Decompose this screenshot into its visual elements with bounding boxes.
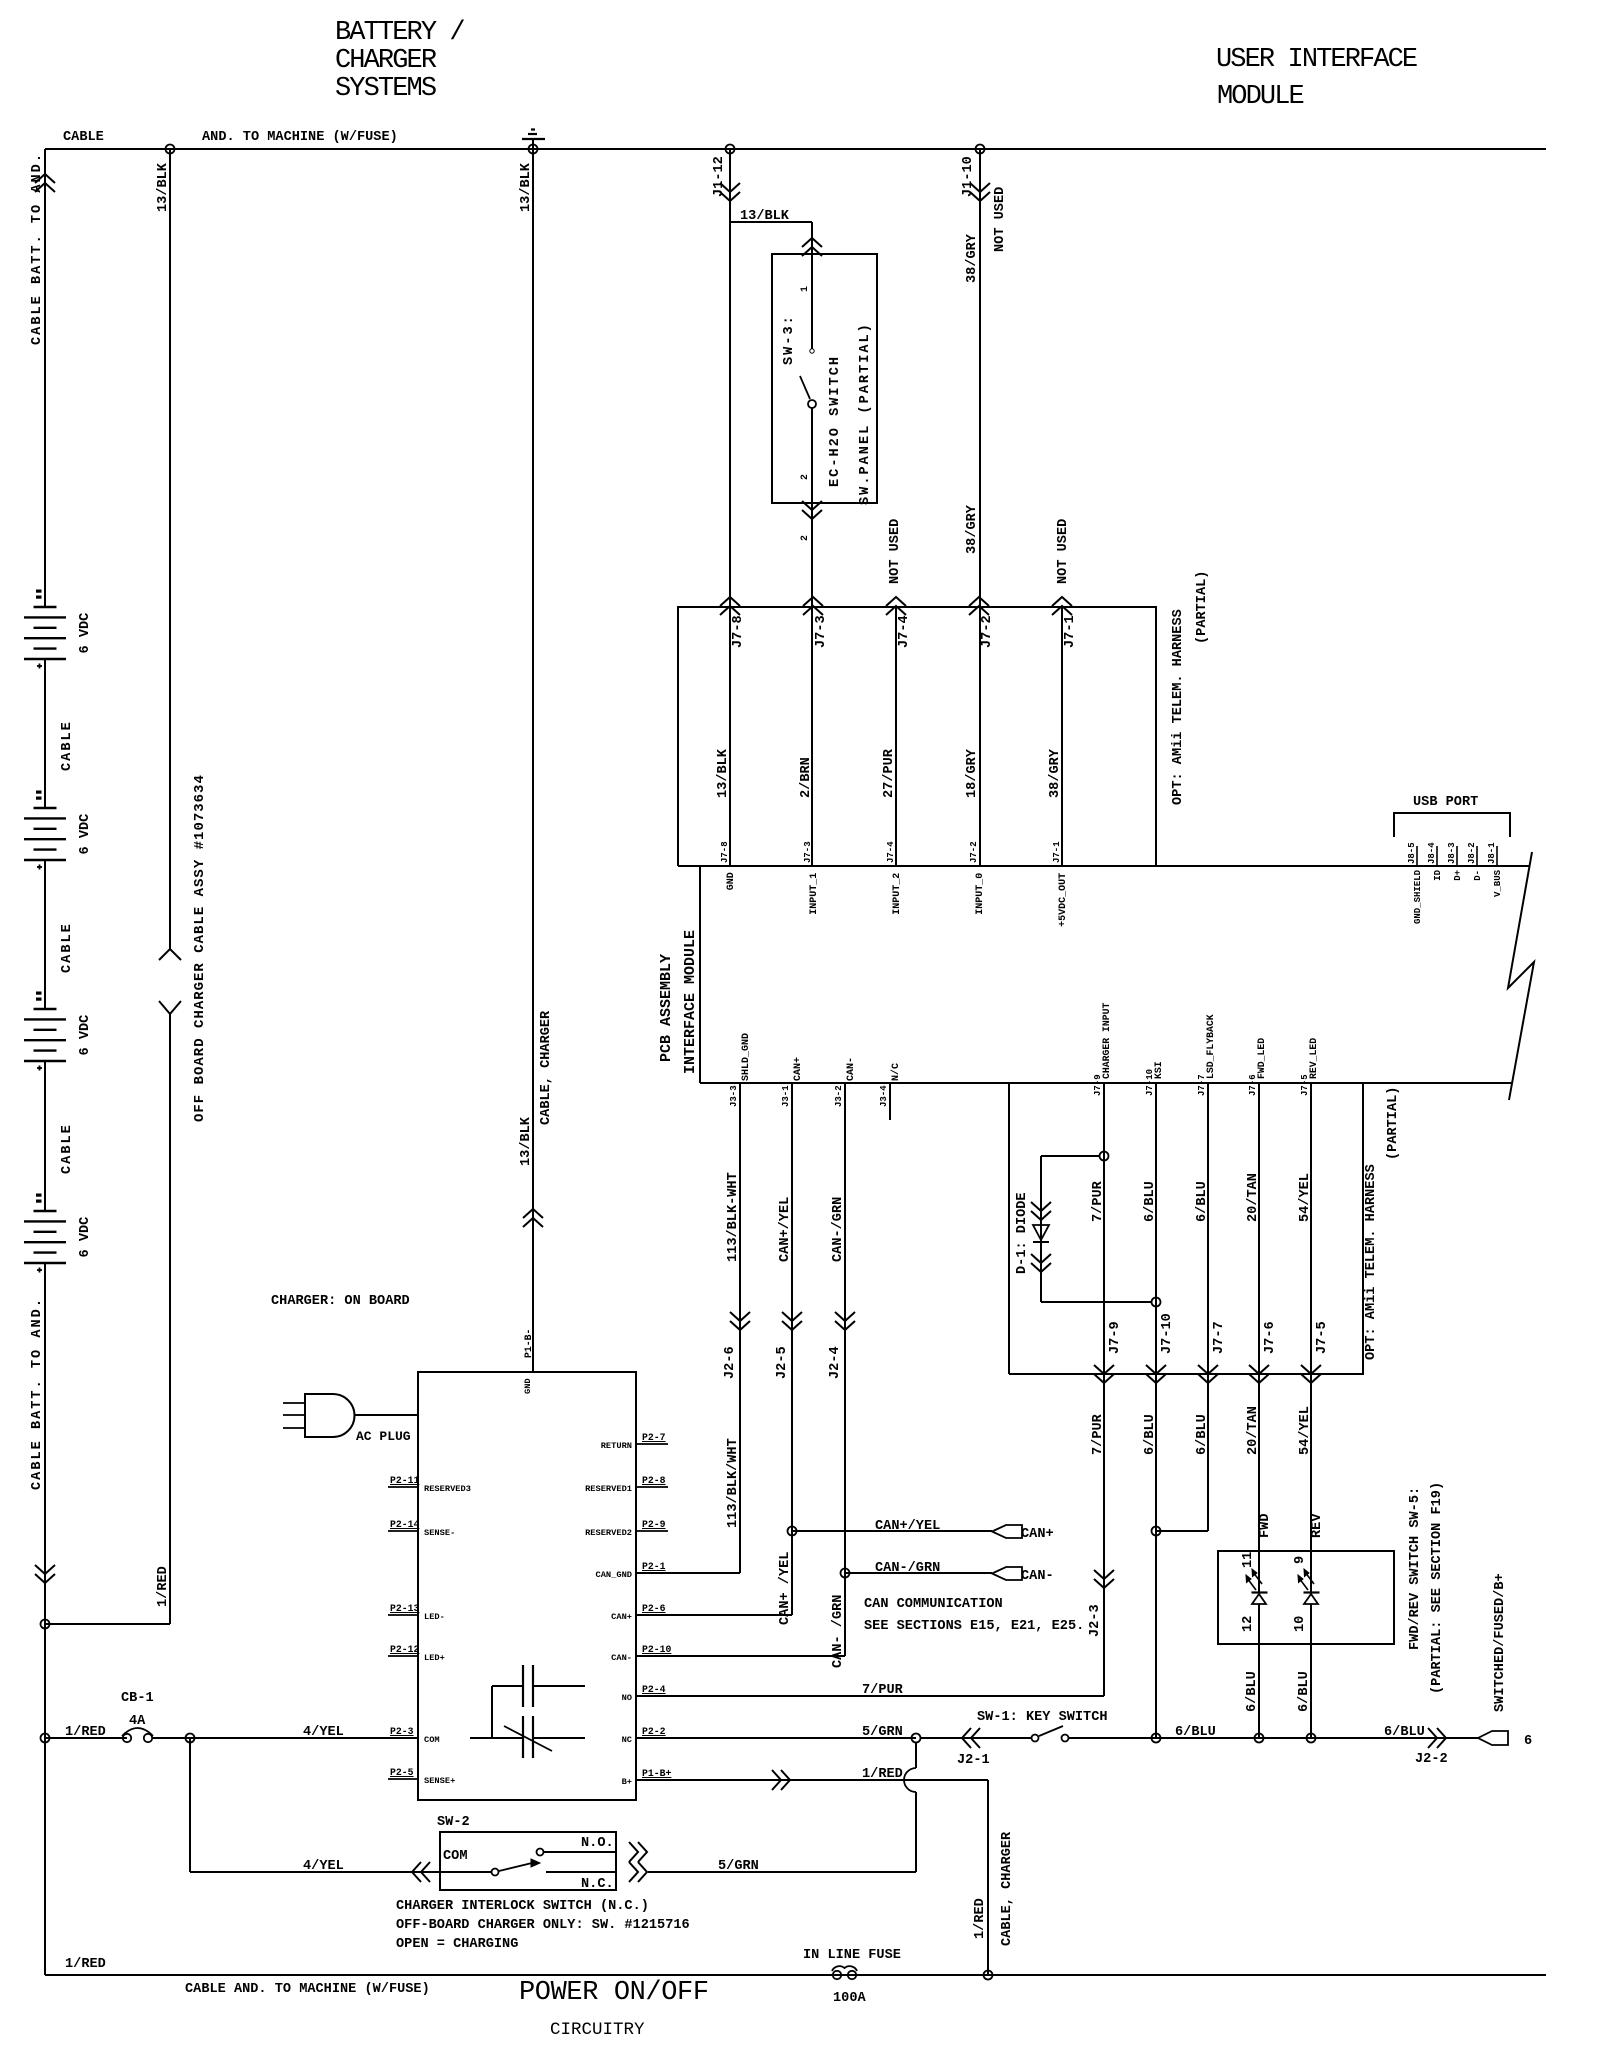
svg-text:NOT USED: NOT USED bbox=[993, 187, 1008, 252]
wire: 6/BLU key switch output to J2-2 flag bbox=[1069, 1737, 1478, 1739]
svg-text:COM: COM bbox=[424, 1735, 440, 1745]
svg-text:18/GRY: 18/GRY bbox=[965, 748, 980, 798]
wire: 113/BLK-WHT from J3-3 down to charger CAN_GND P2-1 bbox=[739, 1083, 741, 1573]
svg-text:D-1: DIODE: D-1: DIODE bbox=[1015, 1192, 1030, 1274]
svg-text:J7-1: J7-1 bbox=[1052, 841, 1062, 863]
connector chevrons at harness top edge J7-4 bbox=[886, 606, 906, 615]
wire: 4/YEL branch down from CB-1 node to SW-2 bbox=[189, 1738, 191, 1872]
svg-text:P2-9: P2-9 bbox=[642, 1519, 666, 1530]
cable-assembly break fork (lower) on x170 riser bbox=[159, 1001, 181, 1014]
wire: 1/RED riser lower segment down to battery positive node bbox=[169, 1014, 171, 1624]
battery B1 6 VDC bbox=[37, 590, 42, 592]
svg-text:LED+: LED+ bbox=[424, 1653, 445, 1663]
svg-text:RESERVED1: RESERVED1 bbox=[585, 1484, 632, 1494]
svg-text:1/RED: 1/RED bbox=[65, 1957, 106, 1972]
svg-text:J1-12: J1-12 bbox=[712, 156, 727, 197]
switch box SW-3 EC-H2O SWITCH SW.PANEL (PARTIAL) bbox=[772, 254, 877, 503]
wire: J1-10 drop from top bus (x=980) 38/GRY bbox=[979, 149, 981, 866]
svg-text:FWD_LED: FWD_LED bbox=[1256, 1038, 1267, 1079]
svg-text:AND. TO MACHINE (W/FUSE): AND. TO MACHINE (W/FUSE) bbox=[202, 130, 398, 145]
svg-text:CABLE: CABLE bbox=[63, 130, 104, 145]
USB pin stub J8-4 bbox=[1436, 846, 1438, 866]
connector marker J2-4 chevrons bbox=[835, 1312, 855, 1321]
svg-text:SYSTEMS: SYSTEMS bbox=[335, 74, 436, 104]
wire: cable between B1 and B2 bbox=[44, 659, 46, 808]
USB pin stub J8-2 bbox=[1476, 846, 1478, 866]
svg-text:RESERVED3: RESERVED3 bbox=[424, 1484, 471, 1494]
wire: top ground bus AND. TO MACHINE (W/FUSE) bbox=[45, 148, 1546, 150]
svg-text:4A: 4A bbox=[129, 1714, 146, 1729]
svg-text:USB PORT: USB PORT bbox=[1413, 795, 1478, 810]
svg-text:1/RED: 1/RED bbox=[65, 1725, 106, 1740]
svg-text:J7-3: J7-3 bbox=[803, 841, 813, 863]
svg-text:CB-1: CB-1 bbox=[121, 1691, 154, 1706]
LED FWD indicator (pins 11/12) bbox=[1252, 1591, 1268, 1593]
wire: P1-B- GND riser from charger top to top bus (13/BLK CABLE, CHARGER) bbox=[532, 149, 534, 1372]
cable marker chevrons out of SW-2 N.C. bbox=[638, 1862, 647, 1882]
svg-text:P2-1: P2-1 bbox=[642, 1561, 666, 1572]
AC plug symbol bbox=[283, 1402, 305, 1404]
svg-text:J8-2: J8-2 bbox=[1467, 842, 1477, 864]
svg-text:38/GRY: 38/GRY bbox=[1048, 748, 1063, 798]
svg-text:J2-6: J2-6 bbox=[723, 1346, 738, 1379]
svg-text:6/BLU: 6/BLU bbox=[1297, 1671, 1312, 1712]
svg-text:B+: B+ bbox=[622, 1777, 632, 1787]
wire: 6/BLU riser J7-7 LSD_FLYBACK bbox=[1207, 1083, 1209, 1531]
svg-text:OPT: AMii TELEM. HARNESS: OPT: AMii TELEM. HARNESS bbox=[1364, 1164, 1379, 1360]
wire: left battery cable below B4 down to bottom bus bbox=[44, 1263, 46, 1975]
svg-text:5/GRN: 5/GRN bbox=[718, 1859, 759, 1874]
svg-text:13/BLK: 13/BLK bbox=[519, 1116, 534, 1166]
svg-text:CABLE AND. TO MACHINE (W/FUSE: CABLE AND. TO MACHINE (W/FUSE) bbox=[185, 1982, 430, 1997]
svg-text:SEE SECTIONS E15, E21, E25.: SEE SECTIONS E15, E21, E25. bbox=[864, 1619, 1084, 1634]
svg-text:1/RED: 1/RED bbox=[973, 1898, 988, 1939]
wire: CAN+/YEL horizontal to CAN+ flag bbox=[792, 1530, 992, 1532]
wire: AC plug to charger bbox=[355, 1414, 418, 1416]
svg-text:SENSE-: SENSE- bbox=[424, 1528, 455, 1538]
switch SW-1 key switch bbox=[1032, 1735, 1039, 1742]
node CAN+ tap bbox=[788, 1527, 797, 1536]
svg-text:+5VDC_OUT: +5VDC_OUT bbox=[1058, 873, 1069, 927]
charger pin stub P2-11 RESERVED3 bbox=[388, 1486, 418, 1488]
svg-text:V_BUS: V_BUS bbox=[1493, 869, 1503, 897]
wire: CAN-/GRN from J3-2 down to charger CAN- P2-10 bbox=[844, 1083, 846, 1656]
svg-text:J7-7: J7-7 bbox=[1212, 1321, 1227, 1354]
svg-text:J8-1: J8-1 bbox=[1487, 842, 1497, 864]
svg-text:ID: ID bbox=[1433, 869, 1443, 880]
cable marker chevrons J2-1 bbox=[962, 1728, 971, 1748]
svg-text:J3-1: J3-1 bbox=[781, 1085, 791, 1107]
svg-text:P2-13: P2-13 bbox=[390, 1603, 420, 1614]
svg-text:CAN+: CAN+ bbox=[793, 1057, 804, 1081]
svg-text:J7-5: J7-5 bbox=[1315, 1321, 1330, 1354]
svg-text:SHLD_GND: SHLD_GND bbox=[741, 1033, 752, 1081]
svg-text:5/GRN: 5/GRN bbox=[862, 1725, 903, 1740]
svg-text:USER INTERFACE: USER INTERFACE bbox=[1216, 45, 1417, 75]
connector chevrons at lower harness bottom edge J7-5 bbox=[1301, 1365, 1321, 1374]
cable marker chevrons up on charger gnd riser bbox=[523, 1218, 543, 1227]
svg-text:CAN-/GRN: CAN-/GRN bbox=[875, 1561, 940, 1576]
svg-text:OFF-BOARD CHARGER ONLY: SW. #: OFF-BOARD CHARGER ONLY: SW. #1215716 bbox=[396, 1918, 690, 1933]
svg-text:10: 10 bbox=[1293, 1616, 1308, 1632]
wire: J1-12 drop from top bus (x=730) bbox=[729, 149, 731, 866]
svg-text:38/GRY: 38/GRY bbox=[965, 504, 980, 554]
svg-text:J2-4: J2-4 bbox=[828, 1346, 843, 1379]
connector flag SWITCHED/FUSED/B+ (6) bbox=[1478, 1731, 1508, 1745]
wire stub N/C J3-4 bbox=[889, 1083, 891, 1120]
charger internal relay NC slash bbox=[504, 1726, 552, 1751]
svg-text:113/BLK-WHT: 113/BLK-WHT bbox=[726, 1172, 741, 1262]
connector chevrons at harness top edge J7-3 bbox=[803, 606, 823, 615]
svg-text:6 VDC: 6 VDC bbox=[78, 1217, 93, 1258]
wire 38/GRY inside harness (x=1062) bbox=[1061, 607, 1063, 866]
node top bus tap J1-10 bbox=[976, 145, 985, 154]
node CB-1 output node bbox=[186, 1734, 195, 1743]
svg-text:FWD/REV SWITCH SW-5:: FWD/REV SWITCH SW-5: bbox=[1408, 1487, 1423, 1650]
svg-text:CAN-: CAN- bbox=[1021, 1569, 1054, 1584]
svg-text:PCB ASSEMBLY: PCB ASSEMBLY bbox=[658, 954, 675, 1062]
charger internal relay NO line bbox=[492, 1685, 523, 1687]
svg-text:POWER ON/OFF: POWER ON/OFF bbox=[519, 1978, 709, 2008]
svg-text:CAN-: CAN- bbox=[611, 1653, 632, 1663]
connector marker J1-10 chevrons bbox=[970, 183, 990, 192]
cable marker chevrons into SW-2 COM bbox=[412, 1862, 421, 1882]
node top bus tap charger gnd bbox=[529, 145, 538, 154]
svg-text:D+: D+ bbox=[1453, 870, 1463, 881]
node D-1 cathode tap bbox=[1152, 1298, 1161, 1307]
cable marker chevrons down on left battery cable (lower) bbox=[35, 1565, 55, 1574]
svg-text:(PARTIAL): (PARTIAL) bbox=[1386, 1087, 1401, 1160]
svg-text:MODULE: MODULE bbox=[1217, 82, 1304, 112]
svg-text:COM: COM bbox=[443, 1849, 467, 1864]
node REV LED to key line bbox=[1307, 1734, 1316, 1743]
svg-text:CAN+/YEL: CAN+/YEL bbox=[778, 1197, 793, 1262]
svg-text:BATTERY /: BATTERY / bbox=[335, 18, 464, 48]
svg-text:J1-10: J1-10 bbox=[961, 156, 976, 197]
module box PCB bottom edge bbox=[700, 1082, 1512, 1084]
connector chevrons at SW-3 top edge bbox=[802, 247, 822, 256]
USB pin stub J8-1 bbox=[1496, 846, 1498, 866]
wire: horizontal 1/RED from battery cable to riser x170 bbox=[45, 1623, 170, 1625]
svg-text:P2-8: P2-8 bbox=[642, 1475, 666, 1486]
connector chevrons at lower harness bottom edge J7-6 bbox=[1249, 1365, 1269, 1374]
svg-text:J7-3: J7-3 bbox=[814, 615, 829, 648]
svg-text:J2-3: J2-3 bbox=[1088, 1604, 1103, 1637]
wire: 6/BLU from FWD LED down to key line bbox=[1258, 1604, 1260, 1738]
svg-text:P2-11: P2-11 bbox=[390, 1475, 420, 1486]
svg-text:P2-10: P2-10 bbox=[642, 1644, 672, 1655]
charger internal relay contact plates (upper pair) bbox=[522, 1665, 524, 1707]
wire: SW-3 lower contact to box bottom bbox=[811, 408, 813, 503]
svg-text:100A: 100A bbox=[833, 1991, 866, 2006]
wire: CAN-/GRN horizontal to CAN- flag bbox=[845, 1572, 992, 1574]
svg-text:P1-B+: P1-B+ bbox=[642, 1768, 672, 1779]
svg-text:1/RED: 1/RED bbox=[156, 1566, 171, 1607]
wire: 7/PUR from P2-4 to J7-9 riser bbox=[636, 1695, 1104, 1697]
wire: left battery cable (vertical, 13/BLK side) bbox=[44, 149, 46, 607]
switch SW-2 lever bbox=[499, 1863, 532, 1871]
svg-text:GND_SHIELD: GND_SHIELD bbox=[1413, 869, 1423, 924]
charger pin stub P2-13 LED- bbox=[388, 1614, 418, 1616]
svg-text:2/BRN: 2/BRN bbox=[799, 757, 814, 798]
svg-text:CABLE BATT. TO AND.: CABLE BATT. TO AND. bbox=[30, 1297, 45, 1490]
cable marker chevrons out of SW-2 N.O. bbox=[638, 1842, 647, 1862]
wire: 4/YEL from CB-1 to charger COM P2-3 bbox=[152, 1737, 418, 1739]
connector chevrons at lower harness bottom edge J7-9 bbox=[1094, 1365, 1114, 1374]
svg-text:J3-2: J3-2 bbox=[834, 1085, 844, 1107]
svg-text:CABLE, CHARGER: CABLE, CHARGER bbox=[1000, 1831, 1015, 1946]
battery B4 6 VDC bbox=[37, 1194, 42, 1196]
svg-text:N.O.: N.O. bbox=[581, 1836, 614, 1851]
svg-text:FWD: FWD bbox=[1258, 1514, 1273, 1538]
node battery positive tap bbox=[41, 1620, 50, 1629]
svg-text:EC-H2O SWITCH: EC-H2O SWITCH bbox=[828, 355, 843, 487]
svg-text:CAN+: CAN+ bbox=[611, 1612, 632, 1622]
svg-text:6/BLU: 6/BLU bbox=[1175, 1725, 1216, 1740]
fuse: IN LINE FUSE 100A on bottom bus bbox=[833, 1971, 841, 1979]
svg-text:CHARGER: ON BOARD: CHARGER: ON BOARD bbox=[271, 1294, 410, 1309]
svg-text:P2-2: P2-2 bbox=[642, 1726, 666, 1737]
svg-text:9: 9 bbox=[1293, 1556, 1308, 1564]
switch box SW-2 charger interlock bbox=[440, 1832, 616, 1890]
connector chevrons at harness top edge J7-8 bbox=[720, 606, 740, 615]
svg-text:13/BLK: 13/BLK bbox=[716, 748, 731, 798]
svg-text:N/C: N/C bbox=[890, 1063, 902, 1081]
svg-text:SWITCHED/FUSED/B+: SWITCHED/FUSED/B+ bbox=[1493, 1573, 1508, 1712]
svg-text:113/BLK/WHT: 113/BLK/WHT bbox=[726, 1438, 741, 1528]
USB pin stub J8-3 bbox=[1456, 846, 1458, 866]
svg-text:6 VDC: 6 VDC bbox=[78, 814, 93, 855]
ground symbol (chassis ground on top bus) bbox=[532, 140, 534, 150]
wire: bottom power bus CABLE AND. TO MACHINE (W/FUSE) bbox=[45, 1974, 1546, 1976]
svg-text:J7-9: J7-9 bbox=[1108, 1321, 1123, 1354]
svg-text:13/BLK: 13/BLK bbox=[740, 209, 790, 224]
svg-text:6 VDC: 6 VDC bbox=[78, 613, 93, 654]
svg-text:REV: REV bbox=[1310, 1513, 1325, 1538]
svg-text:38/GRY: 38/GRY bbox=[965, 233, 980, 283]
svg-text:J2-2: J2-2 bbox=[1415, 1752, 1448, 1767]
svg-text:CAN COMMUNICATION: CAN COMMUNICATION bbox=[864, 1597, 1003, 1612]
wire: 5/GRN from J2-1 node to key switch bbox=[920, 1737, 1031, 1739]
svg-text:6 VDC: 6 VDC bbox=[78, 1015, 93, 1056]
break symbol lightning bolt at PCB right edge bbox=[1508, 852, 1534, 1100]
svg-text:CHARGER: CHARGER bbox=[335, 46, 437, 76]
switch SW-2 N.C. line bbox=[546, 1871, 616, 1873]
diode D-1 symbol bbox=[1033, 1225, 1049, 1240]
cable chevrons above diode D-1 bbox=[1031, 1202, 1051, 1211]
svg-text:CABLE: CABLE bbox=[60, 1123, 75, 1174]
svg-text:SW.PANEL (PARTIAL): SW.PANEL (PARTIAL) bbox=[858, 322, 873, 505]
svg-text:6/BLU: 6/BLU bbox=[1245, 1671, 1260, 1712]
connector chevrons at lower harness bottom edge J7-10 bbox=[1146, 1365, 1166, 1374]
svg-text:CABLE BATT. TO AND.: CABLE BATT. TO AND. bbox=[30, 152, 45, 345]
svg-text:27/PUR: 27/PUR bbox=[882, 748, 897, 798]
cable marker chevrons up on left battery cable bbox=[35, 183, 55, 192]
svg-text:(PARTIAL: SEE SECTION F19): (PARTIAL: SEE SECTION F19) bbox=[1430, 1482, 1445, 1694]
svg-text:J7-2: J7-2 bbox=[980, 615, 995, 648]
svg-text:1: 1 bbox=[799, 286, 810, 292]
connector marker J2-3 chevrons bbox=[1094, 1570, 1114, 1579]
svg-text:CAN-/GRN: CAN-/GRN bbox=[831, 1197, 846, 1262]
svg-text:INPUT_2: INPUT_2 bbox=[892, 873, 903, 915]
charger pin stub P2-12 LED+ bbox=[388, 1655, 418, 1657]
svg-text:J7-1: J7-1 bbox=[1063, 615, 1078, 648]
svg-text:INPUT_0: INPUT_0 bbox=[975, 873, 986, 915]
svg-text:NO: NO bbox=[622, 1693, 632, 1703]
svg-text:11: 11 bbox=[1241, 1552, 1256, 1568]
wire: SW-3 feed drop (x=812) bbox=[811, 222, 813, 349]
svg-text:CABLE: CABLE bbox=[60, 720, 75, 771]
svg-text:J7-6: J7-6 bbox=[1263, 1321, 1278, 1354]
svg-text:SW-2: SW-2 bbox=[437, 1815, 470, 1830]
svg-text:OFF BOARD CHARGER CABLE ASSY #: OFF BOARD CHARGER CABLE ASSY #1073634 bbox=[192, 774, 208, 1122]
svg-text:CAN+: CAN+ bbox=[1021, 1527, 1054, 1542]
wire: 2/BRN from SW-3 down to telemetry harness bbox=[811, 503, 813, 866]
wire: 1/RED from P1-B+ to bottom bus riser bbox=[636, 1779, 988, 1781]
charger box (on-board charger) bbox=[418, 1372, 636, 1800]
svg-text:IN LINE FUSE: IN LINE FUSE bbox=[803, 1948, 901, 1963]
svg-text:CAN- /GRN: CAN- /GRN bbox=[831, 1595, 846, 1668]
connector chevrons at SW-3 bottom edge bbox=[802, 501, 822, 510]
svg-text:P2-7: P2-7 bbox=[642, 1432, 666, 1443]
wire: 7/PUR riser J7-9 bbox=[1103, 1083, 1105, 1696]
svg-text:J3-3: J3-3 bbox=[729, 1085, 739, 1107]
svg-text:SW-3:: SW-3: bbox=[782, 314, 797, 365]
svg-text:12: 12 bbox=[1241, 1616, 1256, 1632]
cable marker chevrons on 1/RED B+ line bbox=[781, 1770, 790, 1790]
svg-text:LED-: LED- bbox=[424, 1612, 445, 1622]
svg-text:6: 6 bbox=[1524, 1734, 1532, 1749]
connector chevrons at lower harness bottom edge J7-7 bbox=[1198, 1365, 1218, 1374]
node battery cable to CB-1 tap bbox=[41, 1734, 50, 1743]
svg-text:4/YEL: 4/YEL bbox=[303, 1725, 344, 1740]
connector chevrons at harness top edge J7-1 bbox=[1052, 606, 1072, 615]
svg-text:CAN_GND: CAN_GND bbox=[596, 1570, 633, 1580]
svg-text:P2-3: P2-3 bbox=[390, 1726, 414, 1737]
svg-text:SW-1: KEY SWITCH: SW-1: KEY SWITCH bbox=[977, 1710, 1108, 1725]
charger pin stub P2-5 SENSE+ bbox=[388, 1778, 418, 1780]
wire 27/PUR inside harness (x=896) bbox=[895, 607, 897, 866]
svg-text:J7-8: J7-8 bbox=[720, 841, 730, 863]
wire: 6/BLU from REV LED down to key line bbox=[1310, 1604, 1312, 1738]
node FWD LED to key line bbox=[1255, 1734, 1264, 1743]
svg-text:GND: GND bbox=[523, 1378, 533, 1394]
svg-text:J7-2: J7-2 bbox=[969, 841, 979, 863]
svg-text:REV_LED: REV_LED bbox=[1308, 1038, 1319, 1079]
svg-text:LSD_FLYBACK: LSD_FLYBACK bbox=[1205, 1014, 1216, 1079]
connector marker J1-12 chevrons bbox=[720, 183, 740, 192]
charger pin stub P2-14 SENSE- bbox=[388, 1530, 418, 1532]
USB pin stub J8-5 bbox=[1416, 846, 1418, 866]
node D-1 anode tap bbox=[1100, 1152, 1109, 1161]
svg-text:KSI: KSI bbox=[1153, 1061, 1164, 1079]
svg-text:GND: GND bbox=[726, 872, 737, 890]
svg-text:7/PUR: 7/PUR bbox=[862, 1683, 904, 1698]
svg-text:CAN+ /YEL: CAN+ /YEL bbox=[778, 1552, 793, 1625]
node top bus tap x170 bbox=[166, 145, 175, 154]
svg-text:N.C.: N.C. bbox=[581, 1877, 614, 1892]
svg-text:P2-5: P2-5 bbox=[390, 1767, 414, 1778]
svg-text:J2-5: J2-5 bbox=[775, 1346, 790, 1379]
svg-text:6/BLU: 6/BLU bbox=[1384, 1725, 1425, 1740]
svg-text:D-: D- bbox=[1473, 870, 1483, 881]
switch SW-2 COM contact bbox=[433, 1871, 491, 1873]
svg-text:P2-12: P2-12 bbox=[390, 1644, 420, 1655]
node KSI to LSD tap bbox=[1152, 1527, 1161, 1536]
svg-text:SENSE+: SENSE+ bbox=[424, 1776, 455, 1786]
node bottom bus tap charger B+ bbox=[984, 1971, 993, 1980]
svg-text:(PARTIAL): (PARTIAL) bbox=[1195, 571, 1210, 644]
svg-text:AC PLUG: AC PLUG bbox=[356, 1429, 411, 1444]
svg-text:13/BLK: 13/BLK bbox=[519, 162, 534, 212]
harness box OPT: AMii TELEM. HARNESS (upper) bbox=[678, 607, 1156, 866]
connector flag CAN- bbox=[992, 1567, 1022, 1580]
svg-text:P2-14: P2-14 bbox=[390, 1519, 420, 1530]
wire: CAN+/YEL from J3-1 down to charger CAN+ P2-6 bbox=[791, 1083, 793, 1615]
svg-text:INPUT_1: INPUT_1 bbox=[809, 873, 820, 915]
svg-text:P2-6: P2-6 bbox=[642, 1603, 666, 1614]
wire: 13/BLK branch from J1-12 drop to SW-3 bbox=[730, 221, 812, 223]
connector marker J2-5 chevrons bbox=[782, 1312, 802, 1321]
svg-text:J7-4: J7-4 bbox=[897, 615, 912, 648]
wire: 54/YEL riser J7-5 REV LED bbox=[1310, 1083, 1312, 1592]
module box PCB left edge bbox=[699, 866, 701, 1083]
svg-text:INTERFACE MODULE: INTERFACE MODULE bbox=[682, 930, 699, 1074]
charger pin stub P2-7 RETURN bbox=[636, 1443, 668, 1445]
svg-text:RESERVED2: RESERVED2 bbox=[585, 1528, 632, 1538]
cable-assembly break fork (upper) on x170 riser bbox=[159, 949, 181, 960]
charger internal relay link bbox=[491, 1686, 493, 1738]
svg-text:P1-B-: P1-B- bbox=[523, 1329, 534, 1358]
svg-text:CABLE: CABLE bbox=[60, 922, 75, 973]
charger pin stub P2-8 RESERVED1 bbox=[636, 1486, 668, 1488]
connector chevrons at harness top edge J7-2 bbox=[969, 606, 989, 615]
node J2-1 node bbox=[912, 1734, 921, 1743]
svg-text:NOT USED: NOT USED bbox=[1056, 519, 1071, 584]
USB port bracket bbox=[1394, 813, 1510, 837]
switch SW-3 contact dot bbox=[810, 349, 814, 353]
svg-text:J8-5: J8-5 bbox=[1407, 842, 1417, 864]
wire: 5/GRN from SW-2 to riser bbox=[648, 1871, 916, 1873]
wire: cable between B3 and B4 bbox=[44, 1061, 46, 1211]
svg-text:J2-1: J2-1 bbox=[957, 1753, 990, 1768]
svg-text:13/BLK: 13/BLK bbox=[156, 162, 171, 212]
wire: cable between B2 and B3 bbox=[44, 860, 46, 1009]
cable chevrons below diode D-1 bbox=[1031, 1254, 1051, 1263]
svg-text:J3-4: J3-4 bbox=[879, 1085, 889, 1107]
wire: 6/BLU riser J7-10 KSI bbox=[1155, 1083, 1157, 1738]
svg-text:CHARGER INPUT: CHARGER INPUT bbox=[1101, 1002, 1112, 1079]
harness box OPT: AMii TELEM. HARNESS (lower) bbox=[1008, 1083, 1010, 1374]
cable marker chevrons J2-2 bbox=[1437, 1728, 1446, 1748]
circuit breaker CB-1 4A bbox=[123, 1734, 131, 1742]
svg-text:1/RED: 1/RED bbox=[862, 1767, 903, 1782]
wire: 13/BLK riser from top bus (x=170) to off-board charger cable break bbox=[169, 149, 171, 949]
wire: 1/RED from battery cable to CB-1 bbox=[45, 1737, 127, 1739]
wire: 5/GRN from P2-2 to key switch node bbox=[636, 1737, 916, 1739]
wire: 1/RED riser down to bottom bus (CABLE, CHARGER) bbox=[987, 1780, 989, 1975]
node CAN- tap bbox=[841, 1569, 850, 1578]
svg-text:NC: NC bbox=[622, 1735, 632, 1745]
connector flag CAN+ bbox=[992, 1525, 1022, 1538]
connector marker J2-6 chevrons bbox=[730, 1312, 750, 1321]
svg-text:P2-4: P2-4 bbox=[642, 1684, 666, 1695]
svg-text:J8-3: J8-3 bbox=[1447, 842, 1457, 864]
module box PCB ASSEMBLY INTERFACE MODULE top edge bbox=[678, 865, 1530, 867]
svg-text:J7-10: J7-10 bbox=[1160, 1313, 1175, 1354]
svg-text:2: 2 bbox=[799, 535, 810, 541]
wire: 20/TAN riser J7-6 FWD LED bbox=[1258, 1083, 1260, 1592]
